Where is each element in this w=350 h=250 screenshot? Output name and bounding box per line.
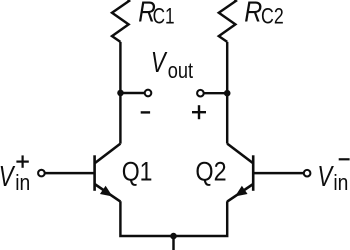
terminal: right output	[197, 90, 204, 97]
node: left output junction	[117, 90, 124, 97]
resistor R1	[112, 0, 129, 42]
svg-text:C2: C2	[261, 5, 284, 29]
label R_C2	[244, 0, 284, 29]
wire: right output tap	[204, 92, 227, 94]
Q2 collector diagonal	[227, 144, 253, 163]
Q1 base bar	[93, 155, 96, 191]
wire: tail stub	[172, 236, 174, 250]
Q1 collector diagonal	[95, 144, 120, 163]
svg-text:V: V	[151, 48, 168, 79]
transistor Q1	[95, 144, 121, 202]
label V_in-	[317, 161, 348, 195]
label Q2	[195, 157, 226, 187]
Q2 emitter arrow	[236, 187, 247, 196]
Q2 base bar	[252, 155, 255, 191]
terminal: V_in- input	[304, 170, 311, 177]
svg-text:V: V	[0, 161, 16, 192]
wire: Q2 base input	[253, 172, 303, 174]
terminal: left output	[145, 90, 152, 97]
svg-text:in: in	[333, 171, 348, 196]
node: tail junction	[170, 233, 177, 240]
label minus	[141, 111, 150, 113]
label plus	[192, 105, 206, 119]
node: right output junction	[224, 90, 231, 97]
svg-text:Q1: Q1	[122, 157, 153, 187]
label V_in+	[0, 161, 30, 195]
label R_C1	[138, 0, 174, 29]
wire: right collector vertical	[226, 42, 228, 144]
wire: left output tap	[120, 92, 144, 94]
wire: left collector vertical	[119, 42, 121, 144]
svg-text:out: out	[168, 58, 194, 83]
Q1 emitter arrow	[101, 187, 112, 196]
Q1 emitter diagonal	[95, 184, 121, 202]
label V_out	[151, 48, 193, 84]
resistor R2	[219, 0, 236, 42]
label minus superscript	[339, 158, 350, 160]
label plus superscript	[16, 155, 28, 167]
svg-text:R: R	[244, 0, 262, 28]
svg-text:Q2: Q2	[195, 157, 226, 187]
svg-text:V: V	[317, 161, 334, 192]
transistor Q2	[227, 144, 253, 202]
svg-text:in: in	[15, 171, 30, 196]
wire: Q1 base input	[45, 172, 94, 174]
label Q1	[122, 157, 153, 187]
svg-text:C1: C1	[153, 5, 175, 30]
wire: Q1 emitter vertical + bottom rail + Q2 emitter vertical	[120, 201, 227, 236]
Q2 emitter diagonal	[227, 184, 253, 202]
terminal: V_in+ input	[38, 170, 45, 177]
